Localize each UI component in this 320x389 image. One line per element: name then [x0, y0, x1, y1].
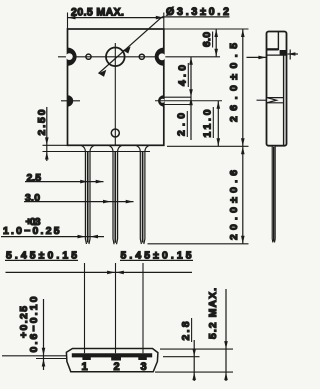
- svg-text:4.0: 4.0: [178, 65, 189, 86]
- dim 26.0 line and arrows: [242, 29, 244, 146]
- right middle notch centerline: [155, 100, 222, 102]
- front view body outline: [68, 29, 164, 145]
- svg-text:2: 2: [114, 361, 120, 373]
- dim 20.5 extension lines: [67, 13, 69, 30]
- bottom view band extension right: [163, 356, 200, 358]
- top edge extension right: [164, 28, 249, 30]
- dim 0.6 line and arrows: [43, 299, 45, 370]
- dim 2.8 line and arrows: [193, 340, 195, 381]
- side view right arrow: [288, 53, 298, 55]
- side view top recess line: [277, 32, 279, 51]
- side view right arrow tick: [289, 50, 291, 60]
- dim 5.2 line and arrows: [225, 289, 227, 381]
- dim 6.0 line and arrows: [215, 29, 217, 57]
- svg-text:3.0: 3.0: [25, 193, 40, 204]
- side view notch bottom line: [267, 102, 284, 104]
- bottom view bottom extension right: [155, 371, 233, 373]
- body bottom extension left: [43, 144, 68, 146]
- bottom small circle: [111, 129, 119, 137]
- leader to mounting hole: [99, 17, 163, 74]
- svg-text:2.5: 2.5: [27, 173, 42, 184]
- lead taper end line: [43, 151, 151, 153]
- dim 4.0 line and arrows: [190, 57, 192, 97]
- svg-text:0.6−0.10: 0.6−0.10: [29, 296, 40, 352]
- lead 1: [81, 145, 94, 244]
- dim 0.6 extension lines: [2, 355, 66, 357]
- dim 5.45 line and arrows: [6, 271, 193, 273]
- side view notch vee: [267, 98, 277, 103]
- dim 2.50 line and arrows: [46, 107, 48, 161]
- bottom view top extension right: [160, 348, 233, 350]
- svg-text:20.5 MAX.: 20.5 MAX.: [71, 6, 124, 18]
- svg-text:2.8: 2.8: [181, 321, 192, 340]
- bottom view outline: [66, 349, 157, 372]
- svg-text:1: 1: [82, 361, 88, 373]
- svg-text:2.0: 2.0: [177, 113, 188, 136]
- dim 20.0 line and arrows: [242, 146, 244, 244]
- svg-text:20.0±0.6: 20.0±0.6: [229, 170, 240, 240]
- side view notch top line: [267, 97, 284, 99]
- bottom view metal base band with lead bumps: [72, 353, 152, 360]
- left top notch: [68, 48, 77, 66]
- hole row centerline: [58, 56, 220, 58]
- dim 20.5 line: [68, 17, 164, 19]
- right middle notch edge extension lines: [164, 96, 192, 98]
- side view lead: [272, 146, 275, 243]
- side view hole dark square: [280, 50, 287, 55]
- svg-text:Ø3.3±0.2: Ø3.3±0.2: [166, 6, 229, 18]
- left middle notch: [68, 95, 74, 106]
- dim 2.0 line and arrow: [190, 97, 192, 140]
- side view left arrow: [247, 56, 267, 58]
- lead tip extension right: [148, 243, 249, 245]
- lead 2: [109, 145, 122, 244]
- svg-text:5.2 MAX.: 5.2 MAX.: [208, 288, 219, 339]
- right top notch: [155, 48, 164, 66]
- lead 3: [136, 145, 149, 244]
- dim 3.0 line and arrows: [24, 201, 134, 203]
- side view hole top band: [267, 48, 279, 50]
- side view hole bottom line: [267, 54, 288, 56]
- dim 2.5 line and arrows: [25, 181, 104, 183]
- left middle notch centerline: [61, 100, 80, 102]
- dim 1.0 line and arrows: [1, 236, 104, 238]
- side view notch centerline stub: [257, 99, 267, 101]
- body bottom extension right: [167, 145, 249, 147]
- svg-text:26.0±0.5: 26.0±0.5: [229, 43, 240, 122]
- svg-text:11.0: 11.0: [203, 109, 214, 137]
- side view inner right line: [283, 55, 285, 146]
- mounting hole vertical centerline: [114, 43, 116, 145]
- svg-text:3: 3: [141, 361, 147, 373]
- mounting hole: [106, 48, 125, 67]
- svg-text:6.0: 6.0: [202, 32, 213, 47]
- small hole left: [86, 54, 91, 59]
- side view outline: [267, 32, 287, 146]
- lead extension verticals to bottom view: [84, 263, 86, 353]
- dim 11.0 line and arrows: [217, 101, 219, 147]
- right middle notch: [158, 95, 164, 106]
- small hole right: [139, 54, 144, 59]
